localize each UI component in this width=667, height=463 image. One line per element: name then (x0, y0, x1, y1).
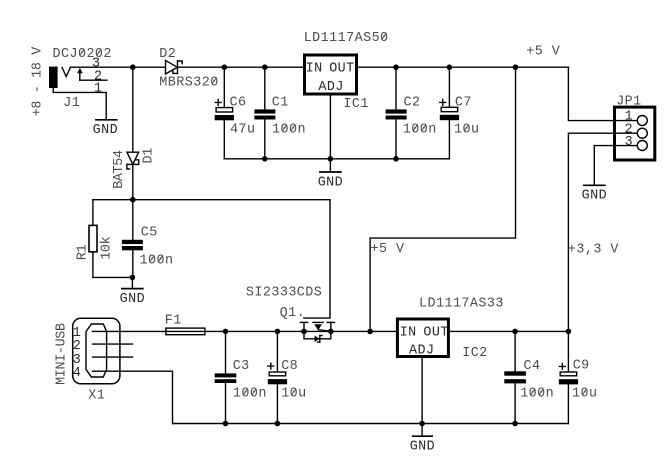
svg-text:D2: D2 (159, 47, 176, 62)
svg-text:GND: GND (582, 189, 607, 204)
svg-text:X1: X1 (88, 388, 105, 403)
svg-text:+5 V: +5 V (526, 45, 560, 60)
svg-text:F1: F1 (165, 314, 182, 329)
svg-text:DCJ0202: DCJ0202 (53, 47, 112, 62)
svg-text:GND: GND (93, 123, 118, 138)
wire node to D1 (132, 67, 134, 152)
wire JP1 pin3 to GND (594, 146, 637, 186)
op-amp IC2 regulator box (397, 319, 448, 357)
ground GND IC2 (413, 424, 433, 437)
svg-text:BAT54: BAT54 (112, 150, 127, 189)
connector JP1 pin 3 circle (637, 141, 647, 151)
svg-text:OUT: OUT (423, 325, 448, 340)
svg-text:10u: 10u (281, 387, 306, 402)
wire IC2 OUT rail (449, 330, 569, 332)
svg-text:100n: 100n (233, 387, 267, 402)
node C9/+3.3V (566, 329, 572, 335)
wire F1 to IC2 IN (205, 330, 396, 332)
node +5V tap (513, 64, 519, 70)
svg-text:10u: 10u (572, 387, 597, 402)
svg-text:C4: C4 (524, 359, 541, 374)
svg-text:R1: R1 (76, 244, 91, 260)
svg-text:C1: C1 (272, 96, 289, 111)
svg-text:OUT: OUT (329, 62, 354, 77)
svg-text:ADJ: ADJ (409, 344, 434, 359)
svg-text:IC1: IC1 (343, 97, 368, 112)
node ADJ rail (328, 156, 334, 162)
wire X1 pin3 stub (93, 356, 133, 358)
svg-text:1: 1 (94, 82, 103, 97)
svg-text:C8: C8 (281, 359, 298, 374)
ground GND IC1 (320, 159, 341, 172)
svg-text:LD1117AS50: LD1117AS50 (304, 31, 389, 46)
capacitor C4 100n (504, 331, 526, 423)
svg-text:MINI-USB: MINI-USB (55, 323, 70, 385)
connector X1 mini-usb outline (73, 318, 120, 384)
svg-text:SI2333CDS: SI2333CDS (246, 285, 322, 300)
svg-text:J1: J1 (63, 96, 80, 111)
svg-text:C3: C3 (233, 359, 250, 374)
svg-text:10k: 10k (100, 236, 115, 259)
node C2 top (393, 64, 399, 70)
wire gate drop (304, 200, 330, 318)
node C6 top (222, 64, 228, 70)
wire X1 pin1 to F1 (93, 330, 166, 332)
svg-text:C5: C5 (141, 226, 158, 241)
transistor Q1 SI2333CDS (300, 322, 334, 342)
svg-text:+5 V: +5 V (371, 242, 405, 257)
svg-text:10u: 10u (454, 122, 479, 137)
svg-text:47u: 47u (230, 122, 255, 137)
svg-text:IC2: IC2 (462, 346, 487, 361)
node C4 top (512, 329, 518, 335)
node R1/C5 bottom (130, 275, 136, 281)
svg-text:C6: C6 (230, 96, 247, 111)
svg-text:GND: GND (318, 175, 343, 190)
node ADJ IC2 (419, 421, 425, 427)
slashed zeros of value labels (80, 33, 587, 396)
diode D2 MBRS320 (166, 60, 183, 74)
fuse F1 (166, 328, 205, 335)
connector X1 usb shape (86, 324, 107, 377)
wire +5V link down to Q1 drain (370, 67, 515, 331)
capacitor C7 10u (440, 67, 459, 159)
op-amp IC1 regulator box (305, 55, 357, 94)
svg-text:C2: C2 (404, 96, 421, 111)
svg-text:100n: 100n (403, 122, 437, 137)
node C4 bottom (512, 421, 518, 427)
wire J1 pin2 stub (80, 79, 107, 81)
node C8 top (275, 329, 281, 335)
node C1 bottom (262, 156, 268, 162)
wire D2 to IC1 IN (178, 66, 304, 68)
capacitor C1 100n (254, 67, 275, 159)
capacitor C3 100n (215, 331, 237, 423)
svg-text:100n: 100n (140, 253, 174, 268)
ground GND R1/C5 (122, 277, 143, 288)
svg-text:C9: C9 (573, 359, 590, 374)
ground GND J1 (96, 119, 117, 121)
node Q1 source (301, 329, 307, 335)
wire JP1 pin2 to +3.3V (568, 133, 637, 331)
wire upper ground rail (224, 158, 449, 160)
wire J1 pin1 to GND (53, 88, 106, 120)
wire X1 pin2 stub (93, 343, 133, 345)
node +5V link (367, 329, 373, 335)
capacitor C2 100n (386, 67, 407, 159)
ground GND JP1 (584, 184, 605, 186)
connector J1 tip contact V (62, 68, 70, 77)
connector JP1 pin 2 circle (637, 128, 647, 138)
svg-text:GND: GND (410, 440, 435, 455)
svg-text:C7: C7 (455, 96, 472, 111)
wire IC1 OUT rail (358, 66, 568, 68)
node C2 bottom (393, 156, 399, 162)
svg-text:MBRS320: MBRS320 (159, 75, 218, 90)
resistor R1 (89, 200, 132, 278)
svg-text:Q1.: Q1. (280, 306, 305, 321)
node C8 bottom (275, 421, 281, 427)
svg-text:100n: 100n (520, 387, 554, 402)
svg-text:+8 - 18 V: +8 - 18 V (31, 47, 46, 117)
node C3 bottom (223, 421, 229, 427)
svg-text:+3,3 V: +3,3 V (568, 242, 619, 257)
node Q1 drain (328, 329, 334, 335)
node C7 top (447, 64, 453, 70)
wire X1 pin4 to bottom rail (93, 371, 173, 423)
svg-text:ADJ: ADJ (318, 80, 343, 95)
wire IC1 ADJ to rail (329, 95, 331, 159)
connector JP1 box (615, 107, 655, 160)
capacitor C5 100n (122, 200, 143, 278)
svg-text:LD1117AS33: LD1117AS33 (419, 296, 504, 311)
svg-text:GND: GND (120, 292, 145, 307)
connector JP1 pin 1 circle (637, 116, 647, 126)
svg-text:IN: IN (306, 62, 323, 77)
connector J1 switch arrow pin 2 (77, 68, 83, 80)
node C3 top (223, 329, 229, 335)
svg-text:3: 3 (625, 135, 634, 150)
node J1/D1 junction (130, 64, 136, 70)
svg-text:4: 4 (73, 366, 82, 381)
wire bottom ground rail (173, 423, 569, 425)
svg-text:JP1: JP1 (616, 94, 641, 109)
wire IC2 ADJ to rail (421, 357, 423, 424)
capacitor C6 47u (215, 67, 234, 159)
wire D1 to mid rail (132, 164, 134, 199)
node D1 bottom (130, 197, 136, 203)
wire top rail corner to JP1 pin1 (568, 67, 637, 120)
svg-text:2: 2 (73, 339, 82, 354)
svg-text:100n: 100n (272, 122, 306, 137)
node C1 top (262, 64, 268, 70)
diode D1 BAT54 (127, 152, 139, 169)
svg-text:D1: D1 (141, 148, 156, 164)
capacitor C9 10u (559, 331, 578, 423)
capacitor C8 10u (268, 331, 287, 423)
wire top rail pin3 (70, 66, 165, 68)
connector J1 body (49, 67, 58, 88)
svg-text:IN: IN (400, 325, 417, 340)
wire mid rail (93, 199, 330, 201)
